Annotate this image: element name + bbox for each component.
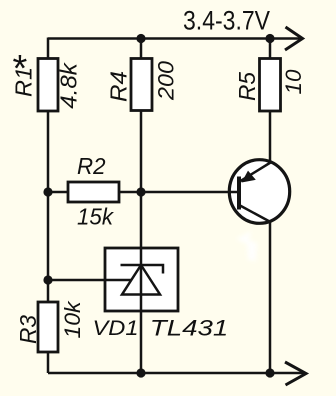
svg-text:4.8k: 4.8k [56,62,82,109]
VD1 cathode bar with tick [121,265,164,274]
svg-text:10: 10 [281,69,306,95]
junction dot left ref node [43,275,52,284]
wire R4 top lead [140,39,143,60]
wire R3 top lead [47,280,50,302]
arrow bottom output chevron [285,362,306,385]
wire VD1 reference lead [48,279,132,282]
wire R5 bottom lead to transistor emitter [269,111,272,163]
arrow top output chevron [285,27,303,50]
VD1 triangle [122,265,160,295]
wire top rail [48,37,302,40]
svg-text:R4: R4 [106,71,132,102]
wire transistor collector to bottom rail [269,222,272,374]
wire bottom rail [48,372,305,375]
svg-text:R2: R2 [77,153,106,179]
svg-text:10k: 10k [60,300,85,338]
svg-text:TL431: TL431 [150,316,229,341]
resistor R1 [38,59,58,112]
svg-text:R3: R3 [15,315,41,344]
junction dot R4/R2 node [136,187,145,196]
wire R3 bottom lead [47,352,50,373]
svg-text:R5: R5 [234,72,260,101]
svg-text:3.4-3.7V: 3.4-3.7V [183,6,270,36]
wire R1 bottom lead [47,111,50,193]
svg-text:200: 200 [154,60,179,101]
wire R4 bottom / VD1 cathode-anode column [140,111,143,374]
resistor R4 [131,59,152,111]
junction dot bottom rail VD1 [136,368,145,377]
transistor Q1 emitter arrowhead [242,171,256,183]
transistor Q1 body circle [229,160,289,224]
wire R5 top lead [269,39,272,60]
resistor R2 [68,182,119,202]
svg-text:*: * [13,48,28,90]
wire R2 right lead to transistor base [119,191,239,194]
VD1 box outline [105,248,178,311]
svg-text:15k: 15k [77,204,114,230]
resistor R3 [38,302,58,352]
junction dot left mid node [43,187,52,196]
svg-text:VD1: VD1 [93,316,139,340]
junction dot top rail R5 [265,34,274,43]
wire left column mid [47,192,50,281]
transistor Q1 collector diagonal [240,206,271,223]
junction dot bottom rail collector [265,368,274,377]
transistor Q1 base bar [237,177,241,210]
component white fills [38,59,290,353]
transistor Q1 emitter diagonal [241,163,271,182]
resistor R5 [260,59,281,112]
wire R1 top lead [47,38,50,60]
junction dot top rail R4 [136,34,145,43]
wire R2 left lead [48,191,68,194]
